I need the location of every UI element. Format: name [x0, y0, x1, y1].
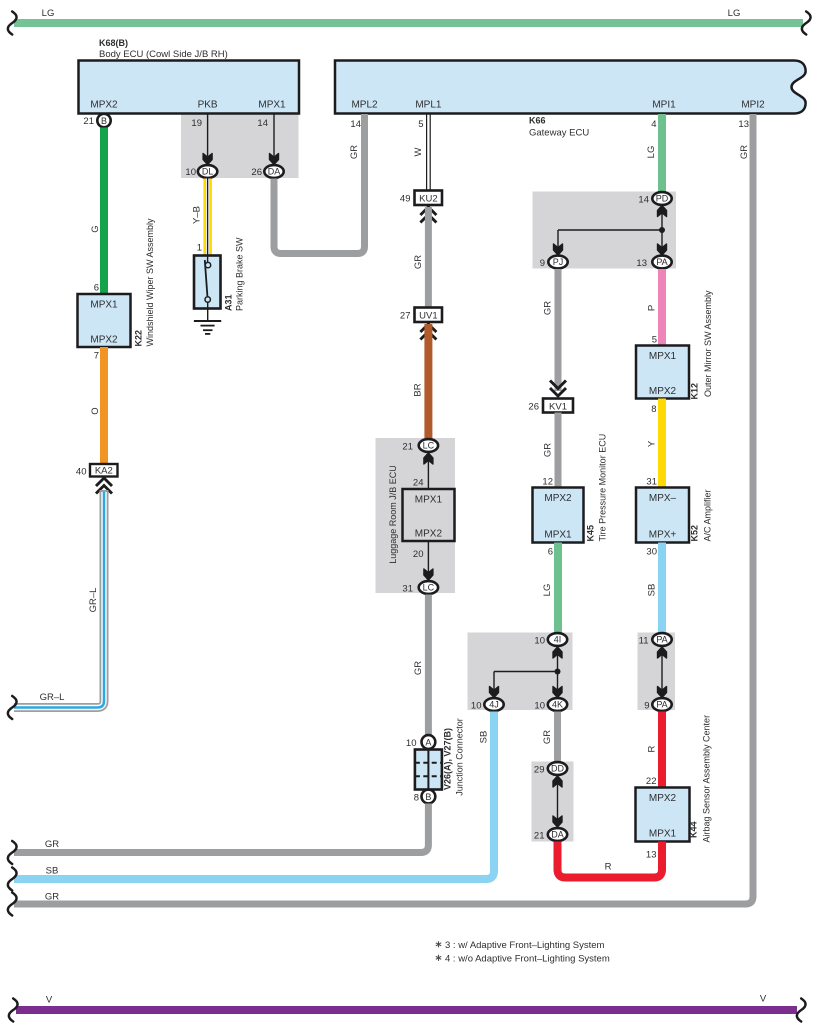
svg-text:DL: DL [202, 167, 214, 177]
svg-text:KA2: KA2 [95, 466, 113, 477]
svg-text:5: 5 [652, 335, 657, 346]
svg-text:4: 4 [651, 119, 656, 130]
svg-text:LG: LG [646, 146, 657, 159]
svg-text:11: 11 [639, 636, 649, 647]
svg-text:W: W [413, 147, 424, 156]
svg-text:Parking Brake SW: Parking Brake SW [235, 237, 245, 311]
svg-text:MPI2: MPI2 [741, 100, 765, 111]
ground A31 [194, 302, 221, 334]
svg-text:LG: LG [42, 8, 55, 19]
connector KU2 [400, 191, 442, 223]
wire GR (LC to junction connector A) [413, 595, 432, 735]
svg-text:Body ECU (Cowl Side J/B RH): Body ECU (Cowl Side J/B RH) [99, 49, 228, 60]
svg-text:26: 26 [528, 402, 539, 413]
ECU K44 Airbag Sensor Assembly Center [636, 715, 712, 861]
svg-text:49: 49 [400, 194, 411, 205]
component K52 A/C Amplifier [636, 488, 713, 543]
node PD branch [554, 214, 667, 256]
svg-text:Y–B: Y–B [192, 206, 203, 224]
ECU K66 Gateway box [335, 61, 806, 139]
svg-text:MPX1: MPX1 [258, 100, 286, 111]
connector DL [185, 165, 217, 178]
wire GR-L [8, 490, 104, 719]
shaded region Luggage Room J/B ECU [376, 438, 456, 593]
svg-text:LC: LC [423, 441, 435, 451]
svg-text:LG: LG [728, 8, 741, 19]
svg-text:10: 10 [534, 636, 545, 647]
pin 14 lead (K68 MPX1) [257, 114, 278, 165]
svg-text:GR: GR [349, 145, 360, 159]
wire LG (MPI1 to PD) [646, 114, 666, 192]
svg-text:MPX2: MPX2 [544, 493, 572, 504]
svg-text:9: 9 [540, 258, 545, 269]
connector DA [251, 165, 283, 178]
svg-text:MPL2: MPL2 [351, 100, 378, 111]
svg-text:A/C Amplifier: A/C Amplifier [703, 489, 713, 541]
svg-text:Y: Y [647, 440, 658, 447]
svg-text:40: 40 [76, 467, 87, 478]
svg-text:Outer Mirror SW Assembly: Outer Mirror SW Assembly [703, 290, 713, 397]
junction connector V26(A) V27(B) [406, 718, 465, 803]
wire LG bus (top) [8, 8, 811, 35]
svg-text:5: 5 [418, 119, 423, 130]
wire Y-B [192, 179, 212, 257]
svg-text:MPX1: MPX1 [544, 530, 572, 541]
svg-text:KV1: KV1 [549, 402, 567, 413]
svg-text:GR: GR [45, 839, 59, 850]
pin 21 circle B [83, 114, 110, 127]
wire R (DA to K44 pin 13) [558, 842, 663, 878]
svg-text:GR–L: GR–L [88, 588, 99, 613]
svg-text:Airbag Sensor Assembly Center: Airbag Sensor Assembly Center [702, 715, 712, 843]
svg-text:30: 30 [646, 547, 657, 558]
svg-text:MPX2: MPX2 [649, 386, 677, 397]
shaded region under K68 PKB/MPX1 [181, 114, 299, 179]
svg-text:PA: PA [656, 700, 667, 710]
svg-text:MPX+: MPX+ [649, 530, 677, 541]
svg-text:PJ: PJ [553, 257, 564, 267]
connector PD [638, 192, 671, 216]
shaded region DD/DA [532, 762, 574, 842]
svg-text:K68(B): K68(B) [99, 38, 128, 48]
connector PJ [540, 256, 568, 269]
shaded region PD/PJ/PA [533, 192, 677, 269]
svg-text:DA: DA [551, 830, 564, 840]
connector 4J [471, 698, 504, 711]
component K12 Outer Mirror SW Assembly [636, 290, 713, 400]
svg-text:MPX1: MPX1 [649, 351, 677, 362]
wire R (PA to K44) [646, 712, 666, 788]
svg-text:BR: BR [413, 383, 424, 396]
svg-text:12: 12 [542, 477, 553, 488]
svg-text:4K: 4K [552, 700, 563, 710]
wire GR (KV1 to K45) [543, 413, 562, 488]
svg-text:14: 14 [350, 119, 361, 130]
svg-text:MPX–: MPX– [649, 493, 677, 504]
svg-text:B: B [101, 116, 107, 126]
wire LG (K45 to 4I) [542, 543, 562, 633]
svg-text:10: 10 [185, 167, 196, 178]
connector PA (11) [639, 633, 672, 658]
wire GR (B to left edge) [8, 804, 429, 865]
wire O [90, 347, 108, 464]
svg-text:KU2: KU2 [419, 194, 437, 205]
svg-text:P: P [647, 305, 658, 311]
wire SB (K52 to PA) [646, 543, 666, 633]
connector PA (9) [644, 698, 671, 711]
svg-text:24: 24 [413, 478, 424, 489]
svg-text:UV1: UV1 [419, 311, 437, 322]
svg-text:LG: LG [542, 584, 553, 597]
svg-text:13: 13 [636, 258, 647, 269]
svg-text:PA: PA [656, 257, 667, 267]
svg-text:19: 19 [191, 118, 202, 129]
svg-text:3 : w/ Adaptive Front–Lighting: 3 : w/ Adaptive Front–Lighting System [445, 940, 605, 951]
svg-text:MPI1: MPI1 [652, 100, 676, 111]
wire GR (4K to DD) [542, 712, 561, 762]
svg-text:4J: 4J [489, 700, 499, 710]
wire Y (K12 to K52) [646, 399, 666, 488]
svg-text:8: 8 [651, 404, 656, 415]
svg-text:SB: SB [647, 584, 658, 597]
connector KV1 [528, 399, 573, 413]
svg-text:13: 13 [738, 119, 749, 130]
svg-text:6: 6 [548, 547, 553, 558]
svg-text:GR: GR [739, 145, 750, 159]
svg-text:V: V [46, 995, 53, 1006]
svg-text:GR: GR [543, 443, 554, 457]
svg-text:21: 21 [534, 831, 545, 842]
svg-text:9: 9 [644, 701, 649, 712]
svg-text:MPX1: MPX1 [649, 829, 677, 840]
svg-text:PA: PA [656, 635, 667, 645]
node 4I branch [490, 655, 563, 698]
svg-text:4I: 4I [554, 635, 562, 645]
wire GR (MPI2 down to left edge) [8, 114, 753, 916]
svg-text:GR: GR [542, 730, 553, 744]
svg-text:14: 14 [638, 195, 649, 206]
svg-text:DA: DA [268, 167, 281, 177]
svg-text:21: 21 [402, 442, 413, 453]
svg-text:A31: A31 [224, 294, 234, 311]
svg-text:Junction Connector: Junction Connector [455, 718, 465, 796]
svg-text:K45: K45 [586, 525, 596, 542]
node PA link [658, 655, 667, 698]
wire P (PA to K12) [647, 269, 667, 346]
wire V bus (bottom) [9, 994, 806, 1022]
note adaptive front-lighting [436, 940, 610, 965]
svg-text:22: 22 [646, 776, 657, 787]
ECU K45 Tire Pressure Monitor [533, 434, 608, 543]
component K22 Windshield Wiper SW Assembly [78, 218, 156, 347]
svg-text:SB: SB [46, 866, 59, 877]
wire GR (DA to MPL2) [274, 114, 365, 254]
svg-text:7: 7 [94, 351, 99, 362]
svg-text:26: 26 [251, 167, 262, 178]
svg-text:R: R [605, 862, 612, 873]
svg-text:MPX2: MPX2 [415, 529, 443, 540]
svg-text:R: R [647, 745, 658, 752]
svg-text:K22: K22 [134, 330, 144, 347]
connector 4K [534, 698, 567, 711]
connector 4I [534, 633, 567, 658]
connector DD [534, 762, 567, 787]
svg-text:27: 27 [400, 311, 411, 322]
svg-text:10: 10 [471, 701, 482, 712]
svg-text:20: 20 [413, 549, 424, 560]
connector UV1 [400, 308, 442, 340]
svg-text:GR–L: GR–L [40, 692, 65, 703]
wire W [413, 114, 430, 191]
wire BR [413, 324, 433, 438]
svg-text:G: G [90, 225, 101, 232]
wire SB (4J to left edge) [8, 712, 494, 891]
shaded region PA/PA [638, 633, 676, 711]
svg-text:K44: K44 [689, 821, 699, 838]
junction block Luggage Room J/B ECU [388, 439, 455, 594]
svg-text:13: 13 [646, 850, 657, 861]
svg-text:10: 10 [534, 701, 545, 712]
svg-text:1: 1 [197, 243, 202, 254]
svg-text:MPL1: MPL1 [415, 100, 442, 111]
wire GR (PJ to KV1) [543, 269, 567, 396]
svg-text:V26(A), V27(B): V26(A), V27(B) [443, 728, 453, 790]
node DD-DA link [553, 784, 562, 827]
svg-text:Luggage Room J/B ECU: Luggage Room J/B ECU [388, 465, 398, 564]
svg-text:A: A [425, 738, 431, 748]
svg-text:K66: K66 [529, 116, 546, 126]
svg-text:MPX2: MPX2 [90, 100, 118, 111]
svg-text:MPX1: MPX1 [415, 495, 443, 506]
svg-text:B: B [425, 792, 431, 802]
svg-text:GR: GR [413, 255, 424, 269]
svg-text:31: 31 [646, 477, 657, 488]
svg-text:31: 31 [402, 584, 413, 595]
svg-text:SB: SB [479, 731, 490, 744]
svg-text:LC: LC [423, 583, 435, 593]
pin 19 lead [191, 114, 212, 165]
svg-text:GR: GR [45, 892, 59, 903]
ECU K68(B) box [79, 38, 300, 114]
svg-text:MPX2: MPX2 [649, 793, 677, 804]
svg-text:Gateway ECU: Gateway ECU [529, 128, 589, 139]
svg-text:MPX2: MPX2 [90, 335, 118, 346]
svg-text:DD: DD [551, 764, 564, 774]
wire GR (KU2 to UV1) [413, 207, 432, 308]
svg-text:29: 29 [534, 765, 545, 776]
svg-text:GR: GR [413, 661, 424, 675]
svg-text:V: V [760, 994, 767, 1005]
svg-text:K52: K52 [690, 525, 700, 542]
svg-text:GR: GR [543, 301, 554, 315]
switch A31 Parking Brake SW [194, 237, 245, 311]
wire G [90, 128, 108, 295]
svg-text:K12: K12 [690, 383, 700, 400]
connector KA2 [76, 464, 118, 494]
connector PA (13) [636, 256, 671, 269]
connector DA (21) [534, 828, 567, 841]
svg-text:Tire Pressure Monitor ECU: Tire Pressure Monitor ECU [598, 434, 608, 542]
svg-text:O: O [90, 407, 101, 414]
svg-text:14: 14 [257, 118, 268, 129]
svg-text:PKB: PKB [198, 100, 218, 111]
svg-text:PD: PD [656, 194, 669, 204]
svg-text:21: 21 [83, 116, 94, 127]
svg-text:6: 6 [94, 283, 99, 294]
svg-text:Windshield Wiper SW Assembly: Windshield Wiper SW Assembly [145, 218, 155, 347]
svg-text:MPX1: MPX1 [90, 300, 118, 311]
svg-text:10: 10 [406, 738, 417, 749]
svg-text:4 : w/o Adaptive Front–Lightin: 4 : w/o Adaptive Front–Lighting System [445, 954, 610, 965]
shaded region 4I/4J/4K [468, 633, 573, 711]
svg-text:8: 8 [414, 793, 419, 804]
